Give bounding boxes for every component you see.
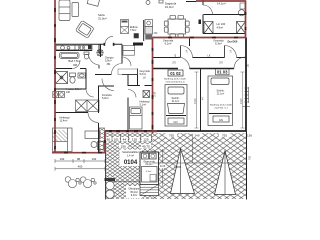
bush cluster 2: [80, 177, 96, 188]
svg-text:LK: LK: [143, 77, 146, 80]
svg-text:9M: 9M: [175, 54, 177, 57]
svg-text:ÞV: ÞV: [203, 96, 205, 100]
svg-text:0104: 0104: [124, 160, 138, 166]
svg-text:5,0m²: 5,0m²: [102, 96, 109, 100]
vanity counter top: [56, 45, 92, 59]
svg-text:5,1m²: 5,1m²: [140, 103, 147, 107]
stairs: [140, 185, 159, 196]
right outer top: [245, 1, 247, 38]
svg-text:D.05: D.05: [154, 91, 157, 97]
svg-text:GN: GN: [219, 118, 223, 122]
drainage lines on paving: [153, 162, 246, 164]
svg-text:192: 192: [92, 157, 97, 161]
svg-text:361: 361: [107, 63, 112, 66]
svg-text:31,0m²: 31,0m²: [98, 17, 107, 21]
black wall chunk: [133, 43, 143, 46]
lamp circle: [146, 1, 150, 5]
outdoor storage + stair block: [140, 152, 159, 196]
svg-text:150: 150: [121, 145, 126, 149]
left outer wall: [54, 0, 56, 153]
vertical wall at 100.5: [100, 44, 102, 57]
veranda label text on paving: [126, 186, 143, 199]
svg-text:Lín 240: Lín 240: [217, 22, 226, 26]
svg-text:LH: LH: [186, 50, 189, 53]
svg-text:01 02: 01 02: [170, 71, 181, 76]
bottom-left outer wall: [52, 152, 106, 154]
svg-text:GN: GN: [174, 120, 178, 124]
D.03 patch right of block: [160, 164, 166, 169]
svg-text:D.03: D.03: [160, 165, 166, 168]
dining table: [168, 19, 186, 34]
forstofa walls: [98, 75, 152, 131]
X wardrobe in laundry: [76, 100, 100, 112]
svg-text:LH: LH: [230, 50, 233, 53]
svg-text:136: 136: [247, 134, 252, 138]
step vertical: [104, 131, 106, 153]
paving hatch left strip: [106, 133, 153, 199]
top right room walls: [203, 0, 246, 15]
svg-text:149: 149: [194, 134, 199, 138]
shower: [56, 72, 68, 84]
apartments bottom wall: [153, 130, 247, 132]
svg-text:16,3m²: 16,3m²: [165, 5, 174, 9]
wall south of stofa/kitchen: [55, 44, 122, 63]
svg-text:755: 755: [169, 134, 174, 138]
top right horizontal: [196, 0, 246, 2]
svg-text:240: 240: [66, 91, 71, 94]
svg-text:með V05 í L.f: með V05 í L.f: [214, 106, 227, 109]
herbergi 11,4 top wall: [55, 86, 99, 152]
svg-text:6,2m²: 6,2m²: [165, 42, 172, 46]
left patio boundary: [105, 141, 107, 200]
svg-text:1,65%: 1,65%: [174, 165, 182, 169]
dimension numbers on left paving: [112, 134, 152, 142]
dark ticks on red walls: [55, 8, 246, 153]
right outer wall: [245, 38, 247, 132]
bush cluster 1: [65, 177, 81, 188]
dimension line left of tree1: [161, 149, 165, 186]
step horizontal: [105, 130, 157, 132]
svg-text:14,1m²: 14,1m²: [217, 2, 226, 6]
svg-text:4420: 4420: [240, 98, 243, 104]
planter + bushes at hatch left edge: [105, 178, 142, 198]
svg-text:6,0m²: 6,0m²: [131, 194, 138, 197]
bath walls: [55, 69, 86, 90]
tree 1: [171, 149, 195, 194]
svg-text:1,4 m²: 1,4 m²: [127, 154, 134, 157]
corridor thick wall: [153, 68, 235, 70]
paving hatch right big: [153, 133, 247, 199]
herbergi middle bottom: [105, 130, 152, 132]
dimension patches in right paving: [166, 133, 252, 138]
dimension line bottom-left 1: [55, 159, 105, 163]
svg-text:308: 308: [73, 64, 78, 67]
svg-text:750: 750: [249, 155, 252, 160]
rotated dimension texts beside beds: [195, 72, 245, 128]
svg-text:90: 90: [106, 138, 110, 142]
svg-text:40,75: 40,75: [142, 145, 150, 149]
svg-text:400: 400: [78, 165, 83, 169]
storage walls right: [153, 57, 247, 59]
desk + chair: [85, 131, 104, 150]
svg-text:4420: 4420: [194, 98, 197, 104]
door arcs: [72, 5, 246, 123]
svg-text:21,1m²: 21,1m²: [217, 93, 225, 96]
svg-text:101: 101: [114, 138, 119, 142]
svg-text:4,9m²: 4,9m²: [217, 26, 224, 30]
svg-text:5,0m²: 5,0m²: [140, 72, 147, 76]
tree 2: [215, 151, 236, 195]
washer dryer: [53, 92, 65, 98]
svg-text:20,2m²: 20,2m²: [145, 163, 152, 166]
hall floor wall: [95, 69, 138, 86]
central vertical: [152, 38, 154, 134]
toilet upper: [84, 52, 89, 55]
dimension line bottom-left 2: [55, 167, 105, 171]
svg-text:21,1m²: 21,1m²: [172, 100, 180, 103]
svg-text:125: 125: [143, 138, 148, 142]
svg-text:með veröndum (L.f): með veröndum (L.f): [165, 80, 184, 83]
svg-text:01 03: 01 03: [217, 70, 228, 75]
svg-text:Klæðning kerfa í íbúðir: Klæðning kerfa í íbúðir: [210, 104, 232, 107]
svg-text:6,3m²: 6,3m²: [146, 170, 152, 173]
svg-text:7,5m²: 7,5m²: [130, 29, 137, 32]
bed middle: [130, 107, 143, 129]
ladder marks on right wall: [243, 87, 250, 107]
150 patch on left paving: [119, 144, 128, 148]
sink: [78, 73, 86, 78]
svg-text:192: 192: [60, 157, 65, 161]
top middle horizontal: [153, 37, 247, 39]
coffee table rotated top: [87, 0, 99, 6]
apt divider: [200, 69, 202, 132]
hatched shaft strip: [99, 128, 104, 152]
bed: [53, 128, 73, 152]
bathtub: [60, 52, 80, 58]
X closet small: [143, 91, 150, 98]
bed 0102: [165, 85, 187, 127]
toilet: [70, 73, 76, 83]
svg-text:98: 98: [77, 157, 81, 161]
svg-text:135: 135: [132, 138, 137, 142]
svg-text:6,3m²: 6,3m²: [215, 42, 222, 46]
sofa along left wall: [59, 0, 70, 21]
svg-text:Klæðning kerfa í íbúðir: Klæðning kerfa í íbúðir: [164, 78, 186, 81]
armchair rotated: [75, 20, 94, 38]
fan symbol: [97, 49, 104, 56]
chairs: [170, 15, 176, 19]
svg-text:755: 755: [222, 134, 227, 138]
corridor cabinets: [123, 46, 135, 56]
svg-text:11,4m²: 11,4m²: [60, 119, 68, 123]
svg-text:44: 44: [123, 138, 127, 142]
svg-text:Dyr D60: Dyr D60: [228, 40, 238, 44]
0104 label box: [120, 150, 143, 167]
